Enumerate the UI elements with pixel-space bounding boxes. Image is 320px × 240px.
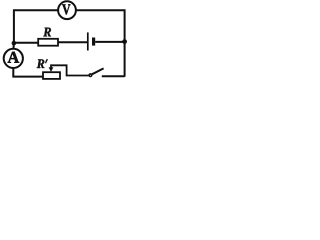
- node left junction: [12, 41, 17, 46]
- wire left edge junction to ammeter: [12, 43, 15, 50]
- battery B1: [88, 32, 94, 50]
- voltmeter V1: [58, 1, 76, 19]
- wire ammeter bottom to bottom-left corner to rheostat: [13, 68, 43, 77]
- resistor R: [38, 28, 58, 46]
- rheostat R': [37, 59, 89, 79]
- wire battery to right edge: [95, 41, 124, 43]
- wire resistor to battery: [58, 41, 87, 43]
- wire from voltmeter to top-right corner and right edge: [76, 10, 125, 77]
- switch S: [89, 68, 104, 76]
- wire middle-left to resistor: [14, 42, 38, 44]
- ammeter A1: [4, 49, 23, 68]
- wire switch to bottom-right corner: [102, 75, 125, 77]
- wire top-left segment and left edge down to middle junction: [14, 10, 58, 42]
- node right junction: [122, 39, 127, 44]
